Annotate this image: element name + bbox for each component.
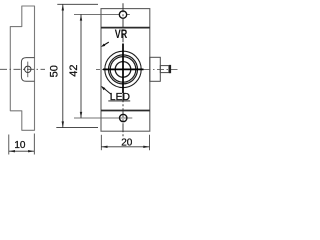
VR thick horizontal crosshair xyxy=(103,68,144,70)
horizontal dash-dot centerline left of plate xyxy=(96,68,103,70)
VR inner circle xyxy=(115,62,131,78)
VR thick vertical crosshair xyxy=(122,44,124,94)
LED leader arrow xyxy=(102,87,111,95)
VR ring outer circle xyxy=(109,55,138,84)
VR leader arrow xyxy=(103,42,109,46)
LED underline xyxy=(108,100,130,102)
bottom mounting hole xyxy=(120,114,127,121)
horizontal dash-dot centerline through shaft xyxy=(144,68,179,70)
pot shaft xyxy=(160,66,169,73)
dim 42 top extension line xyxy=(74,13,119,15)
pot shaft end cap xyxy=(169,65,171,73)
dim 10 extension lines xyxy=(8,135,10,155)
dim 50 dimension line xyxy=(62,4,64,127)
svg-text:10: 10 xyxy=(14,140,26,151)
svg-text:20: 20 xyxy=(121,138,133,149)
side-view hole xyxy=(25,66,31,72)
VR ring inner circle xyxy=(110,57,136,83)
top mounting hole xyxy=(119,11,126,18)
svg-text:42: 42 xyxy=(68,64,80,76)
flange top section line xyxy=(101,27,150,29)
side-view bracket profile xyxy=(10,6,34,130)
svg-text:50: 50 xyxy=(49,65,61,77)
svg-text:VR: VR xyxy=(115,27,128,41)
flange bottom section line xyxy=(101,110,150,112)
side-view hole vertical centerline xyxy=(27,62,29,78)
dim 42 bottom extension line xyxy=(74,117,132,119)
pot body xyxy=(150,57,161,81)
front-view plate xyxy=(101,9,150,132)
dim 20 dimension line xyxy=(101,146,149,148)
dim 50 extension lines xyxy=(57,3,98,5)
dim 20 extension lines xyxy=(100,135,102,150)
vertical centerline xyxy=(122,3,124,136)
dim 10 dimension line xyxy=(9,150,35,152)
VR outer circle xyxy=(105,51,141,87)
side-view boss xyxy=(21,58,34,82)
side-view horizontal dash-dot centerline xyxy=(0,68,45,70)
dim 42 dimension line xyxy=(80,14,82,118)
